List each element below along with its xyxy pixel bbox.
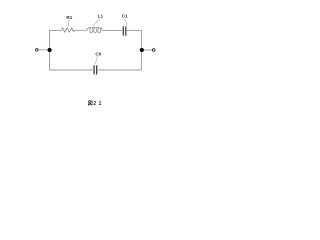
resistor R1 <box>61 15 74 32</box>
svg-text:図2 1: 図2 1 <box>88 100 102 107</box>
wire left vertical <box>49 30 51 70</box>
node B (right junction dot) <box>140 48 144 52</box>
svg-text:C0: C0 <box>95 51 101 56</box>
wire L1 to C1 <box>102 29 122 31</box>
svg-text:C1: C1 <box>122 13 128 18</box>
terminal right (open circle) <box>152 49 155 52</box>
wire R1 to L1 <box>74 29 87 31</box>
wire right vertical <box>140 30 142 70</box>
terminal left (open circle) <box>36 49 39 52</box>
capacitor C0 <box>94 51 102 74</box>
svg-text:R1: R1 <box>66 15 72 20</box>
inductor L1 <box>87 14 104 33</box>
capacitor C1 <box>122 13 128 35</box>
wire left terminal stub <box>38 49 49 51</box>
wire top-left segment <box>49 29 61 31</box>
node A (left junction dot) <box>48 48 52 52</box>
wire C1 to right corner <box>127 29 142 31</box>
wire right terminal stub <box>141 49 152 51</box>
svg-text:L1: L1 <box>98 14 104 19</box>
wire bottom-left segment <box>49 69 93 71</box>
wire C0 to right corner <box>98 69 142 71</box>
